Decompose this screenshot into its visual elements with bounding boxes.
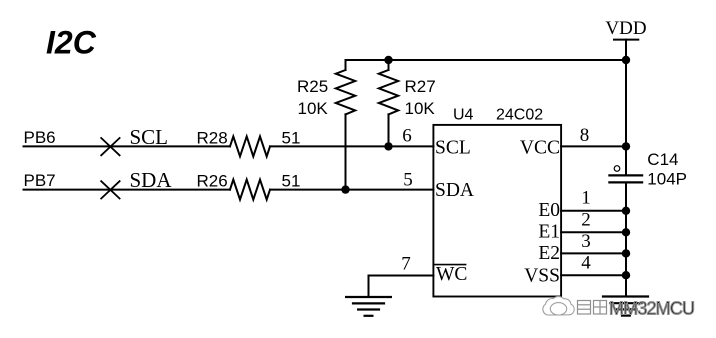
junction E0 rail	[622, 207, 630, 215]
svg-text:2: 2	[581, 210, 591, 231]
wire top rail	[346, 59, 627, 61]
resistor R25 body and leads	[336, 60, 355, 190]
svg-text:6: 6	[402, 125, 412, 146]
svg-text:4: 4	[581, 253, 591, 274]
svg-text:8: 8	[580, 125, 590, 146]
svg-text:R26: R26	[197, 172, 228, 191]
junction R25 SDA	[341, 185, 349, 193]
svg-text:R27: R27	[405, 77, 436, 96]
junction R27 top rail	[384, 56, 392, 64]
svg-text:E2: E2	[538, 243, 560, 264]
resistor R28 body	[230, 136, 270, 156]
svg-text:5: 5	[403, 169, 413, 190]
svg-text:SDA: SDA	[130, 168, 173, 192]
wire PB7/SDA left segment	[24, 189, 231, 191]
svg-text:U4: U4	[453, 107, 474, 124]
svg-text:7: 7	[401, 254, 411, 275]
svg-text:I2C: I2C	[46, 25, 97, 61]
ground symbol right	[603, 297, 648, 316]
svg-text:VCC: VCC	[520, 137, 560, 158]
svg-text:SCL: SCL	[130, 125, 169, 149]
pin 7 wire WC	[369, 276, 434, 297]
svg-text:1: 1	[581, 188, 591, 209]
svg-text:SCL: SCL	[435, 137, 471, 158]
wire PB6/SCL left segment	[24, 145, 231, 147]
junction E2 rail	[622, 249, 630, 257]
svg-text:WC: WC	[436, 264, 467, 285]
svg-text:PB7: PB7	[24, 171, 56, 190]
watermark CJK 灵动 (approximated)	[578, 301, 607, 315]
svg-text:MM32MCU: MM32MCU	[609, 299, 695, 319]
ground symbol left	[346, 297, 391, 316]
svg-text:VDD: VDD	[605, 18, 646, 39]
junction R27 SCL	[384, 142, 392, 150]
power symbol VDD	[614, 40, 638, 175]
svg-text:24C02: 24C02	[496, 107, 543, 124]
resistor R26 body	[230, 180, 270, 200]
svg-text:SDA: SDA	[435, 180, 474, 201]
no-connect X on PB7 wire	[101, 181, 119, 198]
svg-text:E1: E1	[538, 222, 560, 243]
IC U4 box	[433, 125, 561, 297]
svg-text:10K: 10K	[405, 99, 436, 118]
watermark text	[609, 299, 695, 319]
junction VDD top rail	[622, 56, 630, 64]
svg-text:VSS: VSS	[524, 265, 560, 286]
wire SDA right segment to IC pin 5	[270, 189, 433, 191]
pin 1 wire E0	[561, 210, 626, 212]
capacitor C14 polarity circle	[614, 166, 620, 172]
svg-text:3: 3	[581, 231, 591, 252]
svg-text:51: 51	[282, 129, 301, 148]
WC overline	[434, 264, 465, 266]
junction E1 rail	[622, 228, 630, 236]
wire SCL right segment to IC pin 6	[270, 145, 433, 147]
svg-text:R28: R28	[197, 129, 228, 148]
resistor R27 body and leads	[379, 60, 398, 146]
junction VCC rail	[622, 142, 630, 150]
watermark logo	[543, 297, 574, 315]
pin 4 wire VSS	[561, 274, 626, 276]
pin 3 wire E2	[561, 252, 626, 254]
pin 2 wire E1	[561, 231, 626, 233]
capacitor C14 plates	[609, 175, 642, 182]
svg-text:PB6: PB6	[24, 128, 56, 147]
junction VSS rail	[622, 271, 630, 279]
svg-text:C14: C14	[647, 150, 678, 169]
svg-text:104P: 104P	[647, 170, 687, 189]
no-connect X on PB6 wire	[101, 138, 119, 155]
svg-text:E0: E0	[538, 200, 560, 221]
svg-text:10K: 10K	[298, 99, 329, 118]
svg-text:51: 51	[282, 172, 301, 191]
svg-text:R25: R25	[297, 77, 328, 96]
wire VDD/ground rail lower	[625, 183, 627, 296]
pin 8 wire VCC	[561, 145, 626, 147]
